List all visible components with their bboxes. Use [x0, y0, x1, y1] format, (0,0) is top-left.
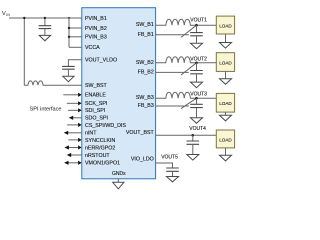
svg-text:VOUT_VLDO: VOUT_VLDO	[85, 58, 117, 64]
svg-text:SPI interface: SPI interface	[30, 107, 62, 113]
capacitor C_OUT2	[190, 63, 203, 82]
IC U1 PMIC body	[82, 8, 156, 179]
wire nINT	[64, 131, 82, 135]
svg-text:PVIN_B2: PVIN_B2	[85, 26, 107, 32]
wire LOAD4 to ground	[225, 148, 227, 155]
wire SYNCCLKIN	[68, 138, 81, 142]
wire SCK_SPI	[67, 101, 82, 105]
svg-text:SDI_SPI: SDI_SPI	[85, 108, 105, 114]
svg-text:LOAD: LOAD	[219, 101, 232, 106]
svg-text:FB_B3: FB_B3	[138, 103, 154, 109]
wire FB_B3 diagonal tap	[181, 98, 197, 108]
svg-text:LOAD: LOAD	[219, 61, 232, 66]
ground LOAD4	[220, 155, 232, 161]
svg-text:VOUT1: VOUT1	[190, 17, 207, 23]
capacitor C_IN	[39, 18, 52, 35]
svg-text:PVIN_B3: PVIN_B3	[85, 35, 107, 41]
junction dot Vin-PVIN bus	[68, 17, 70, 19]
svg-text:IN: IN	[6, 13, 10, 17]
ground C_OUT1	[191, 43, 203, 48]
ground C_OUT4	[187, 155, 199, 161]
svg-text:SW_B3: SW_B3	[136, 95, 154, 101]
svg-text:VOUT3: VOUT3	[190, 91, 207, 97]
capacitor C_OUT3	[190, 98, 203, 118]
ground LOAD2	[220, 79, 232, 85]
wire PVIN bus vertical	[68, 18, 70, 47]
svg-text:GNDs: GNDs	[112, 171, 126, 177]
svg-text:SW_B2: SW_B2	[136, 60, 154, 66]
wire PVIN_B2	[69, 27, 82, 29]
ground C_OUT2	[191, 82, 203, 88]
inductor L_BST	[24, 81, 82, 85]
svg-text:VOUT5: VOUT5	[161, 154, 178, 160]
svg-text:nINT: nINT	[85, 131, 97, 137]
ground LOAD3	[220, 115, 232, 121]
wire FB_B1	[156, 34, 189, 36]
svg-text:LOAD: LOAD	[219, 137, 232, 142]
junction dot VOUT1	[195, 24, 198, 27]
wire SDO_SPI	[69, 116, 82, 120]
svg-text:FB_B2: FB_B2	[138, 69, 154, 75]
wire VOUT_VLDO	[68, 60, 81, 67]
wire VCCA	[69, 46, 82, 48]
ground C_IN	[39, 35, 50, 40]
junction dot Vin-Cin	[44, 17, 46, 19]
wire CS_SPI/WD_DIS	[67, 123, 82, 127]
inductor L1	[156, 19, 217, 25]
svg-text:SCK_SPI: SCK_SPI	[85, 101, 107, 107]
wire VIO_LDO	[156, 163, 173, 168]
node Vin label	[2, 11, 10, 17]
wire nERR/GPO2	[65, 145, 82, 149]
svg-text:nRSTOUT: nRSTOUT	[85, 153, 110, 159]
capacitor C_OUT5	[166, 168, 179, 177]
LOAD 4 box	[216, 130, 234, 148]
ground C_OUT3	[191, 118, 203, 124]
capacitor C_OUT4	[187, 135, 200, 154]
svg-text:LOAD: LOAD	[219, 23, 232, 28]
junction dot VOUT3	[195, 97, 198, 100]
svg-text:VIO_LDO: VIO_LDO	[131, 156, 154, 162]
svg-text:VOUT4: VOUT4	[189, 126, 206, 132]
wire ENABLE	[63, 93, 81, 97]
inductor L3	[156, 92, 217, 98]
svg-text:SYNCCLKIN: SYNCCLKIN	[85, 138, 115, 144]
wire FB_B1 diagonal tap	[181, 25, 197, 37]
svg-text:ENABLE: ENABLE	[85, 93, 106, 99]
wire boost branch vertical	[23, 18, 25, 85]
wire LOAD1 to ground	[225, 34, 227, 43]
svg-text:VMON1/GPO1: VMON1/GPO1	[85, 161, 120, 167]
wire FB_B3	[156, 105, 189, 107]
svg-text:VOUT_BST: VOUT_BST	[126, 130, 155, 136]
LOAD 1 box	[216, 16, 234, 34]
wire Vin top rail	[9, 17, 82, 19]
svg-text:nERR/GPO2: nERR/GPO2	[85, 145, 115, 151]
ground GNDs	[113, 179, 124, 189]
svg-text:SW_BST: SW_BST	[85, 83, 108, 89]
wire nRSTOUT	[67, 153, 82, 157]
capacitor C_VLDO	[62, 66, 75, 76]
junction dot PVIN_B3	[68, 36, 70, 38]
junction dot VOUT2	[195, 62, 198, 65]
wire FB_B2 diagonal tap	[181, 63, 197, 75]
junction dot VOUT4	[192, 134, 195, 137]
svg-text:SDO_SPI: SDO_SPI	[85, 116, 108, 122]
inductor L2	[156, 57, 217, 63]
svg-text:PVIN_B1: PVIN_B1	[85, 16, 107, 22]
wire VMON1/GPO1	[64, 161, 82, 165]
wire SDI_SPI	[68, 108, 82, 112]
wire VOUT_BST	[156, 134, 217, 136]
ground C_VLDO	[63, 76, 74, 81]
LOAD 3 box	[216, 93, 234, 112]
junction dot Vin-boost	[23, 17, 25, 19]
ground LOAD1	[220, 43, 232, 49]
LOAD 2 box	[216, 53, 234, 72]
svg-text:CS_SPI/WD_DIS: CS_SPI/WD_DIS	[85, 123, 126, 129]
junction dot PVIN_B2	[68, 27, 70, 29]
wire PVIN_B3	[69, 36, 82, 38]
svg-text:VCCA: VCCA	[85, 45, 100, 51]
ground C_OUT5	[167, 177, 179, 182]
svg-text:FB_B1: FB_B1	[138, 32, 154, 38]
capacitor C_OUT1	[190, 25, 203, 43]
wire LOAD3 to ground	[225, 112, 227, 115]
wire LOAD2 to ground	[225, 71, 227, 78]
svg-text:VOUT2: VOUT2	[190, 56, 207, 62]
svg-text:V: V	[2, 11, 6, 17]
svg-text:SW_B1: SW_B1	[136, 22, 154, 28]
wire FB_B2	[156, 71, 189, 73]
